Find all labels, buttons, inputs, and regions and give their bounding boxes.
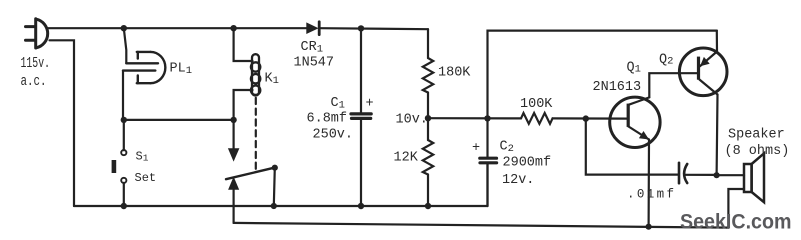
svg-text:Speaker: Speaker (728, 128, 785, 143)
wire mid bus (10v node to Q1 base) (428, 117, 521, 119)
node mid wire right (230, 117, 236, 123)
node 10v divider (425, 115, 431, 121)
wire blade to bottom rail (274, 168, 275, 206)
node blade top (272, 165, 278, 171)
resistor 100K (521, 113, 553, 124)
node emitter to lower rail (646, 224, 652, 230)
relay plunger arrow (down) (233, 120, 235, 149)
wire top rail left (48, 27, 307, 29)
svg-text:100K: 100K (520, 97, 553, 112)
node speaker junction (714, 172, 720, 178)
node top rail / PL1 (121, 25, 127, 31)
label PL1 (170, 62, 193, 78)
diode CR1 (306, 22, 318, 34)
svg-text:1N547: 1N547 (294, 56, 335, 71)
svg-text:SeekIC.com: SeekIC.com (680, 210, 792, 234)
wire feedback vertical (586, 119, 678, 175)
svg-text:115v.: 115v. (21, 55, 51, 72)
capacitor C2 (480, 157, 497, 160)
wire PL1 bottom lead (122, 71, 124, 120)
node Q1 base / feedback (583, 115, 589, 121)
svg-text:12K: 12K (394, 151, 419, 166)
wire mid horizontal (124, 119, 234, 121)
svg-text:+: + (366, 97, 374, 112)
wire C2 column to plates (486, 118, 488, 156)
node top rail / C1 (358, 25, 364, 31)
transistor Q1 (610, 97, 660, 147)
wire bottom rail (ac common) (74, 205, 488, 207)
svg-text:2N1613: 2N1613 (593, 80, 642, 95)
resistor 12K (427, 118, 429, 140)
AC plug (26, 19, 48, 48)
svg-text:180K: 180K (438, 66, 471, 81)
wire speaker return (728, 189, 744, 228)
resistor 180K (427, 29, 429, 58)
label Q1 2N1613 (593, 61, 642, 96)
wire plug lower lead (50, 40, 75, 206)
label Speaker (8 ohms) (725, 128, 790, 160)
wire Q1 collector to Q2 base (649, 73, 697, 97)
pilot lamp PL1 (123, 52, 165, 83)
speaker (744, 153, 764, 202)
svg-text:Set: Set (135, 171, 157, 185)
wire K1 bottom lead (234, 90, 253, 120)
relay coil K1 (251, 54, 260, 95)
wire top rail left (after CR1) (320, 28, 428, 29)
switch S1 (123, 120, 125, 150)
transistor Q2 (679, 48, 727, 96)
svg-text:6.8mf: 6.8mf (307, 112, 348, 127)
node blade bottom (271, 203, 277, 209)
svg-text:10v.: 10v. (396, 113, 428, 128)
relay linkage (dashed) (255, 98, 257, 170)
svg-text:a.c.: a.c. (21, 73, 47, 90)
node mid wire left (121, 117, 127, 123)
relay armature arrow (up) (228, 177, 239, 190)
capacitor .01mf (678, 163, 681, 183)
node C1 bottom (358, 203, 364, 209)
wire lower rail (armature to speaker) (234, 223, 729, 228)
wire Q2 collector down (715, 95, 718, 176)
capacitor C1 (360, 28, 362, 112)
label S1 Set (135, 150, 157, 186)
node top rail / K1 (230, 25, 236, 31)
wire K1 top lead (234, 28, 253, 61)
node 12K bottom (425, 203, 431, 209)
relay contact blade (226, 168, 275, 180)
wire Q2 emitter to rail (716, 31, 718, 52)
svg-text:250v.: 250v. (313, 128, 354, 143)
wire to speaker (717, 174, 744, 176)
wire PL1 top lead (124, 28, 127, 63)
svg-text:+: + (472, 141, 480, 156)
label CR1 1N547 (294, 40, 335, 71)
label K1 (265, 72, 279, 88)
svg-text:Q2: Q2 (659, 53, 673, 68)
wire C2 bottom to rail end (drawn above as part of rail) (486, 164, 488, 206)
label Q2 (659, 53, 673, 68)
wire Q1 emitter down (647, 140, 650, 227)
svg-text:12v.: 12v. (502, 173, 534, 188)
svg-text:.01mf: .01mf (627, 188, 674, 202)
svg-text:Q1: Q1 (627, 61, 641, 76)
label C1 plus (307, 96, 374, 143)
svg-text:2900mf: 2900mf (503, 156, 552, 171)
node top rail right / C2 column (484, 115, 490, 121)
wire C2 column upper (488, 31, 717, 119)
svg-text:(8 ohms): (8 ohms) (725, 144, 790, 159)
node S1 bottom (121, 203, 127, 209)
label 115v. a.c. (21, 55, 51, 90)
